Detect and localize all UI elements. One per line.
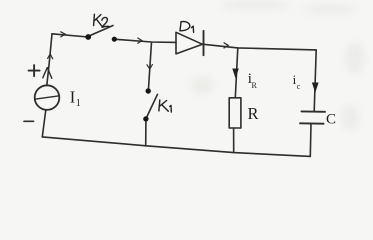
svg-text:I: I — [70, 87, 76, 106]
svg-text:R: R — [252, 81, 258, 90]
svg-text:1: 1 — [76, 98, 81, 109]
svg-text:R: R — [248, 104, 259, 123]
svg-text:C: C — [326, 111, 336, 127]
svg-text:c: c — [297, 82, 301, 91]
